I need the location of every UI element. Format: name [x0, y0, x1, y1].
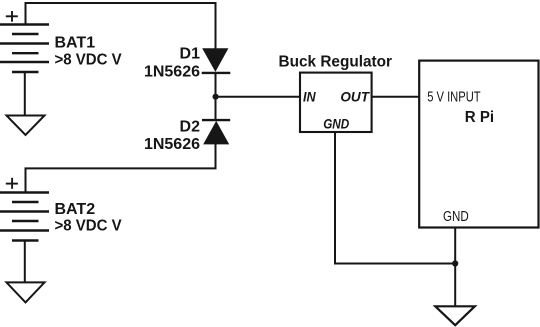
buck regulator U1 box: [300, 73, 372, 132]
svg-text:GND: GND: [443, 209, 469, 225]
node junction (diodes): [213, 94, 219, 100]
battery BAT2: [0, 193, 49, 241]
module R Pi box: [419, 61, 538, 228]
svg-text:IN: IN: [303, 88, 316, 104]
diode D2: [202, 120, 230, 144]
svg-text:BAT2: BAT2: [55, 201, 96, 218]
svg-text:1N5626: 1N5626: [144, 136, 200, 153]
svg-text:R Pi: R Pi: [465, 109, 494, 126]
svg-text:D2: D2: [180, 119, 201, 136]
wire BAT1 minus to ground: [24, 72, 26, 115]
wire R Pi GND to ground: [454, 227, 456, 306]
ground (output): [435, 306, 475, 325]
svg-text:BAT1: BAT1: [55, 35, 96, 52]
wire BAT2 minus to ground: [24, 241, 26, 283]
wire node to Buck IN: [216, 96, 301, 98]
wire Buck GND to ground bus: [335, 132, 455, 264]
ground (BAT1): [7, 116, 45, 136]
wire D1 cathode to node: [215, 73, 217, 97]
plus sign BAT1: [6, 11, 18, 22]
svg-text:>8 VDC V: >8 VDC V: [55, 52, 123, 69]
svg-text:GND: GND: [323, 116, 349, 132]
wire D2 anode to BAT2 plus: [26, 144, 216, 193]
svg-text:>8 VDC V: >8 VDC V: [55, 218, 123, 235]
wire BAT1 plus to D1 anode: [26, 3, 216, 49]
svg-text:5 V INPUT: 5 V INPUT: [427, 89, 481, 105]
svg-text:Buck Regulator: Buck Regulator: [279, 53, 393, 70]
wire node to D2 cathode: [215, 97, 217, 120]
node junction (ground bus): [452, 260, 458, 266]
svg-text:1N5626: 1N5626: [144, 64, 200, 81]
ground (BAT2): [7, 282, 45, 302]
plus sign BAT2: [6, 178, 18, 189]
svg-text:OUT: OUT: [340, 88, 370, 104]
wire Buck OUT to R Pi input: [372, 96, 420, 98]
svg-text:D1: D1: [180, 46, 201, 63]
diode D1: [202, 49, 231, 73]
battery BAT1: [0, 25, 49, 73]
